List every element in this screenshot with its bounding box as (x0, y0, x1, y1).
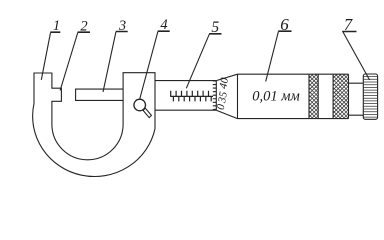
spindle (micrometer screw) (76, 89, 124, 100)
thimble bevel cone (216, 74, 237, 118)
sleeve outline (155, 81, 216, 111)
lock lever handle (143, 108, 151, 117)
leader line 3 (103, 32, 116, 92)
svg-text:40: 40 (217, 76, 231, 89)
thimble body top and bottom (238, 74, 349, 118)
label digits 1-7 (53, 15, 353, 36)
sleeve lower ticks (173, 96, 211, 101)
sleeve upper ticks (171, 91, 209, 97)
sleeve datum line (170, 95, 213, 97)
thimble edge ticks (213, 81, 217, 109)
ratchet neck (349, 83, 364, 115)
leader line 2 (60, 33, 78, 91)
leader line 4 (140, 32, 158, 100)
frame F (C-shape body with anvil) (33, 73, 155, 177)
leader line 1 (41, 33, 50, 80)
bevel scale digits (215, 76, 231, 111)
leader line 7 (343, 32, 370, 80)
svg-text:4: 4 (160, 17, 167, 33)
svg-text:3: 3 (118, 18, 126, 34)
svg-text:0,01 мм: 0,01 мм (252, 89, 300, 105)
svg-text:5: 5 (211, 19, 219, 36)
label underlines (50, 31, 356, 34)
ratchet cap outline (363, 74, 377, 119)
knurled band 1 crosshatch (265, 74, 360, 118)
svg-text:1: 1 (53, 18, 60, 34)
svg-text:2: 2 (80, 19, 87, 35)
lock ring circle (134, 99, 146, 111)
leader line 5 (186, 34, 209, 88)
leader line 6 (266, 32, 279, 82)
svg-text:6: 6 (280, 15, 289, 34)
svg-text:35: 35 (216, 90, 230, 104)
ratchet cap knurl lines (364, 77, 378, 118)
svg-text:7: 7 (344, 15, 353, 34)
knurled band 2 crosshatch (289, 74, 384, 118)
band separator lines (309, 74, 349, 118)
